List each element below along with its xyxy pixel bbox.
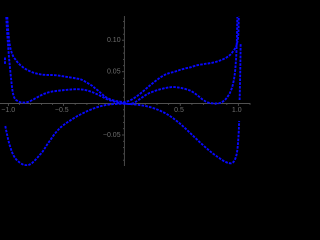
curve T: transition-temperature curve (humps, touches zero) [6,17,237,104]
axis tick labels [1,37,241,139]
svg-text:−1.0: −1.0 [1,107,15,114]
y axis [123,16,125,166]
svg-text:−0.5: −0.5 [55,107,69,114]
chart: free-energy style curves on black background [0,0,256,166]
clipped curve fragment at left edge [4,58,6,66]
svg-text:0.5: 0.5 [174,107,184,114]
curve P: upper plateau curve with cusp at origin [7,17,239,103]
curve D right wall segment [240,44,241,100]
axis ticks [7,104,9,106]
svg-text:1.0: 1.0 [232,107,242,114]
curve D: deep double-well curve [5,104,239,165]
svg-text:0.05: 0.05 [107,69,121,76]
svg-text:−0.05: −0.05 [103,132,121,139]
svg-text:0.10: 0.10 [107,37,121,44]
x axis [0,103,250,105]
